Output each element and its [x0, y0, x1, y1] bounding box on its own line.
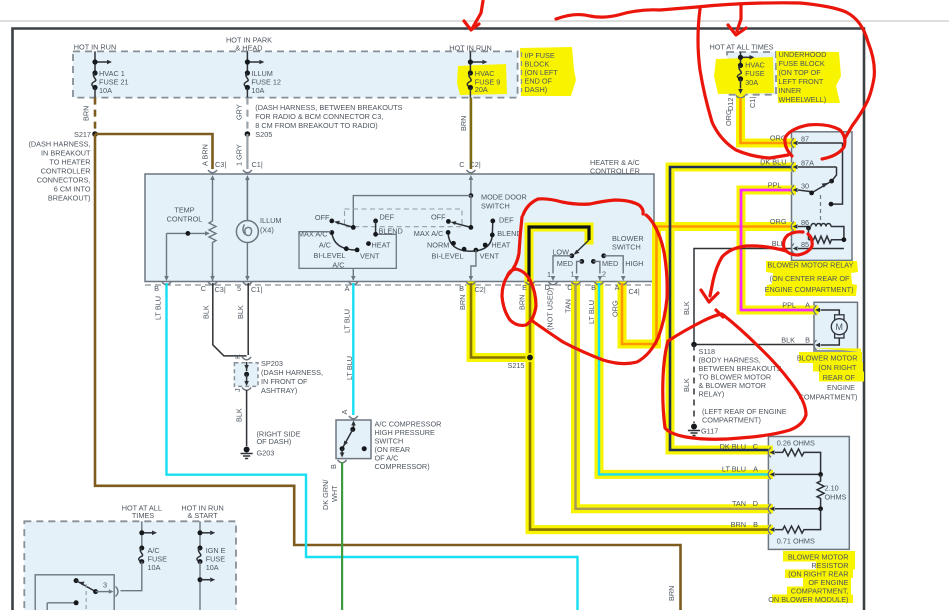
wire BLK pin 5 to SP203: [247, 283, 249, 355]
svg-text:B: B: [459, 284, 464, 293]
svg-text:S205: S205: [255, 130, 272, 139]
page separator line: [0, 20, 949, 22]
svg-text:WHT: WHT: [330, 485, 339, 502]
svg-text:LEFT FRONT: LEFT FRONT: [779, 77, 824, 86]
svg-text:BRN: BRN: [458, 295, 467, 310]
svg-text:C: C: [201, 284, 206, 293]
resistor 0.71 ohms: [775, 509, 821, 533]
relay coil: [811, 224, 831, 227]
underhood connector bracket: [736, 96, 745, 99]
svg-text:B: B: [805, 336, 810, 345]
wire BLK relay 85 down to S118: [694, 249, 792, 345]
highlight wire ORG relay 86 to blower switch A: [622, 227, 792, 345]
highlight wire PPL relay 30 to motor A: [741, 190, 814, 310]
svg-text:D12: D12: [726, 98, 735, 111]
relay pin brackets and arrows: [791, 138, 794, 254]
svg-text:MED: MED: [557, 259, 573, 268]
svg-text:A: A: [753, 465, 758, 474]
svg-text:VENT: VENT: [480, 252, 500, 261]
left mode output to pin A: [352, 268, 354, 273]
svg-text:LT BLU: LT BLU: [722, 465, 746, 474]
motor internal wiring: [821, 310, 840, 316]
svg-text:A: A: [345, 284, 350, 293]
svg-text:C1|: C1|: [251, 285, 262, 294]
svg-text:COMPRESSOR): COMPRESSOR): [375, 462, 430, 471]
svg-text:1 GRY: 1 GRY: [235, 144, 244, 166]
svg-text:BI-LEVEL: BI-LEVEL: [313, 251, 345, 260]
svg-text:S217: S217: [74, 130, 91, 139]
svg-text:C2|: C2|: [475, 285, 486, 294]
svg-text:BRN: BRN: [667, 586, 676, 601]
red circle around relay pin 85: [784, 232, 813, 255]
svg-text:ORG: ORG: [770, 217, 787, 226]
svg-text:C1|: C1|: [748, 97, 757, 108]
blower motor relay box: [792, 132, 853, 261]
highlight wire TAN to resistor D: [576, 286, 769, 509]
svg-text:WHEELWELL): WHEELWELL): [779, 95, 827, 104]
svg-text:5: 5: [237, 284, 241, 293]
wire ORG pin A to relay 86: [622, 227, 792, 345]
svg-text:ENGINE: ENGINE: [827, 383, 855, 392]
red arrow to S118 area: [710, 246, 786, 296]
svg-text:FUSE BLOCK: FUSE BLOCK: [779, 59, 825, 68]
svg-text:J: J: [233, 388, 242, 392]
svg-text:BLOWER MOTOR: BLOWER MOTOR: [797, 354, 858, 363]
svg-text:1: 1: [547, 270, 551, 279]
svg-text:10A: 10A: [206, 563, 219, 572]
svg-text:BLK: BLK: [682, 378, 691, 392]
svg-text:& START: & START: [188, 511, 219, 520]
pin C bracket + labels: [466, 170, 475, 173]
svg-text:BLEND: BLEND: [497, 229, 521, 238]
svg-text:B: B: [591, 283, 596, 292]
wire BLK dashed S118 to G117: [693, 345, 695, 424]
svg-text:C: C: [753, 442, 758, 451]
svg-text:85: 85: [801, 240, 809, 249]
svg-text:30A: 30A: [745, 78, 758, 87]
svg-text:BRN: BRN: [518, 295, 527, 310]
S217 harness note: [28, 140, 91, 203]
svg-text:BI-LEVEL: BI-LEVEL: [432, 252, 464, 261]
svg-text:COMPARTMENT): COMPARTMENT): [799, 393, 858, 402]
contact MED 1: [579, 259, 584, 264]
svg-text:FUSE: FUSE: [745, 69, 765, 78]
svg-text:(X4): (X4): [260, 226, 274, 235]
wire BLK pin C to SP203: [213, 283, 247, 356]
potentiometer TEMP CONTROL: [209, 221, 216, 281]
wire GRY S205 to controller pin 1: [246, 134, 248, 169]
svg-text:(DASH HARNESS,: (DASH HARNESS,: [28, 140, 90, 149]
svg-text:BRN: BRN: [82, 106, 91, 121]
right mode switch arc: [448, 221, 493, 251]
red squiggle over mode door switch: [523, 199, 643, 215]
I/P fuse block location text: [522, 51, 559, 94]
svg-text:C3|: C3|: [215, 285, 226, 294]
svg-text:B: B: [753, 520, 758, 529]
svg-text:ENGINE COMPARTMENT): ENGINE COMPARTMENT): [765, 285, 854, 294]
red loop around S118 text: [663, 314, 806, 439]
svg-text:86: 86: [801, 218, 809, 227]
svg-text:OFF: OFF: [315, 213, 330, 222]
LOW leg to pin D: [553, 256, 572, 274]
contact HIGH: [601, 253, 606, 258]
wire BRN S217 down-left long run: [95, 134, 681, 610]
svg-text:UNDERHOOD: UNDERHOOD: [779, 50, 827, 59]
bottom left fuse block box: [24, 521, 236, 610]
svg-text:BREAKOUT): BREAKOUT): [48, 194, 91, 203]
node S205: [245, 131, 251, 137]
svg-text:ON BLOWER MODULE): ON BLOWER MODULE): [768, 595, 848, 604]
highlight I/P fuse block text blob: [520, 47, 576, 96]
svg-text:A: A: [340, 410, 349, 415]
fuse ILLUM FUSE 12 10A: [244, 51, 281, 97]
ground G203: [241, 430, 301, 459]
blower motor resistor box: [768, 437, 849, 550]
highlight underhood fuse block text blob: [776, 51, 841, 103]
svg-text:NORM: NORM: [427, 241, 449, 250]
svg-text:10A: 10A: [251, 86, 264, 95]
svg-text:ASHTRAY): ASHTRAY): [261, 386, 297, 395]
svg-text:ORG: ORG: [611, 300, 620, 317]
controller bottom pin arrows: [164, 276, 625, 281]
svg-text:10A: 10A: [148, 563, 161, 572]
svg-text:CONTROLLER: CONTROLLER: [590, 167, 640, 176]
red arrow top center: [473, 1, 483, 27]
red stroke top toward loop: [556, 7, 697, 19]
svg-text:SP203: SP203: [261, 359, 283, 368]
svg-text:REAR OF: REAR OF: [823, 373, 856, 382]
svg-text:B: B: [154, 284, 159, 293]
node S215: [525, 353, 534, 362]
underhood fuse block box: [727, 52, 776, 95]
svg-text:BLK: BLK: [236, 305, 245, 319]
svg-text:BLK: BLK: [235, 408, 244, 422]
svg-text:M: M: [836, 322, 844, 332]
wire BRN fuse9 to controller pin C: [470, 98, 473, 169]
highlight blower motor text: [799, 348, 863, 381]
wire BRN dashed fuse21 to S217: [94, 98, 97, 134]
svg-text:E: E: [522, 283, 527, 292]
highlight wire ORG fuse to relay 87: [741, 96, 792, 143]
controller top pin arrows: [210, 175, 215, 180]
svg-text:LT BLU: LT BLU: [154, 296, 163, 320]
highlight wire DK BLU relay 87A to resistor C: [670, 167, 792, 450]
svg-text:K: K: [233, 354, 242, 359]
highlight blower motor relay text: [765, 261, 858, 296]
svg-text:A: A: [615, 283, 620, 292]
left mode switch arc: [332, 233, 357, 251]
svg-text:SWITCH: SWITCH: [481, 202, 510, 211]
svg-text:3: 3: [103, 581, 107, 590]
highlight underhood fuse area blob: [714, 57, 774, 94]
wire TAN pin C to resistor D: [576, 283, 769, 509]
wire ORG underhood fuse to relay 87: [741, 98, 792, 143]
svg-text:87A: 87A: [801, 159, 814, 168]
svg-text:TO HEATER: TO HEATER: [49, 158, 90, 167]
svg-text:CONNECTORS,: CONNECTORS,: [37, 176, 91, 185]
blower switch feed thick black wire: [529, 227, 589, 282]
svg-text:HOT AT ALL TIMES: HOT AT ALL TIMES: [709, 43, 773, 52]
red oval around relay pin 87: [785, 125, 845, 159]
left mode switch OFF blade: [329, 219, 334, 224]
svg-text:DK GRN/: DK GRN/: [321, 479, 330, 510]
svg-text:IN BREAKOUT: IN BREAKOUT: [41, 149, 91, 158]
wire GRY dashed fuse12 to S205: [246, 98, 248, 134]
svg-text:HEAT: HEAT: [372, 241, 391, 250]
resistor A row: [775, 473, 821, 475]
highlight wire LT BLU to resistor A: [599, 286, 768, 474]
bottom left inner switch box: [35, 575, 114, 610]
svg-text:HIGH: HIGH: [625, 259, 643, 268]
svg-text:0.71 OHMS: 0.71 OHMS: [777, 537, 815, 546]
svg-text:A: A: [805, 301, 810, 310]
red descender and oval around BRN E: [502, 217, 536, 325]
svg-text:BRN: BRN: [459, 116, 468, 131]
svg-text:G203: G203: [257, 449, 275, 458]
fuse A/C FUSE 10A: [121, 521, 168, 590]
motor M circle: [831, 319, 847, 335]
A/C compressor high pressure switch box: [336, 420, 371, 459]
I/P fuse block box: [73, 51, 518, 97]
wire LT BLU pin A to compressor switch: [352, 283, 354, 415]
svg-text:2.10: 2.10: [825, 484, 839, 493]
relay switch: [831, 143, 843, 204]
svg-text:PPL: PPL: [782, 301, 796, 310]
contact MED 2: [591, 259, 596, 264]
controller bottom pin brackets: [162, 282, 627, 285]
resistor location text: [768, 553, 848, 605]
svg-text:MODE DOOR: MODE DOOR: [481, 193, 527, 202]
highlight wire BRN B to S215: [471, 286, 530, 358]
svg-text:TAN: TAN: [564, 299, 573, 313]
svg-text:TEMP: TEMP: [174, 206, 194, 215]
svg-text:8 CM FROM BREAKOUT TO RADIO): 8 CM FROM BREAKOUT TO RADIO): [255, 121, 377, 130]
svg-text:COMPARTMENT): COMPARTMENT): [702, 416, 761, 425]
svg-text:(NOT USED): (NOT USED): [546, 288, 555, 330]
svg-text:C4|: C4|: [629, 287, 640, 296]
relay actuator dashed link: [820, 195, 822, 224]
wire LT BLU pin B2 to resistor A: [599, 283, 768, 474]
underhood fuse block location text: [779, 50, 827, 104]
node S118: [691, 342, 697, 348]
SP203 connector box: [234, 363, 258, 387]
svg-text:PPL: PPL: [768, 181, 782, 190]
left HEAT contact: [366, 241, 371, 246]
svg-text:(DASH HARNESS,: (DASH HARNESS,: [261, 368, 323, 377]
svg-text:ILLUM: ILLUM: [260, 216, 282, 225]
resistor 2.10 ohms vertical: [817, 474, 824, 508]
svg-text:DK BLU: DK BLU: [720, 442, 746, 451]
svg-text:1: 1: [570, 270, 574, 279]
svg-text:BRN: BRN: [731, 520, 746, 529]
fuse HVAC FUSE 30A: [737, 52, 764, 94]
fuse IGN E FUSE 10A: [197, 521, 226, 610]
contact LOW: [569, 253, 574, 258]
svg-text:MAX A/C: MAX A/C: [298, 230, 328, 239]
svg-text:TIMES: TIMES: [132, 511, 154, 520]
svg-text:C: C: [459, 160, 464, 169]
svg-text:(DASH HARNESS, BETWEEN BREAKOU: (DASH HARNESS, BETWEEN BREAKOUTS: [255, 103, 402, 112]
svg-text:(ON TOP OF: (ON TOP OF: [779, 68, 822, 77]
svg-text:OHMS: OHMS: [825, 493, 847, 502]
svg-text:10A: 10A: [99, 86, 112, 95]
fuse HVAC FUSE 9 20A: [467, 51, 500, 97]
svg-text:87: 87: [801, 135, 809, 144]
svg-text:HEAT: HEAT: [491, 241, 510, 250]
ganged dashed box: [345, 209, 463, 227]
right mode switch OFF blade: [446, 219, 451, 224]
left DEF/BLEND column: [373, 219, 378, 224]
svg-text:B: B: [329, 464, 338, 469]
svg-text:DEF: DEF: [499, 216, 514, 225]
motor location text: [797, 354, 858, 402]
wire BRN S217 to controller pin A: [95, 134, 213, 169]
A/C compressor switch internals: [349, 416, 358, 419]
mode switch feed junction: [469, 193, 474, 198]
ground G117: [688, 424, 718, 436]
svg-text:20A: 20A: [475, 85, 488, 94]
relay resistor: [808, 228, 810, 240]
blower switch blade: [577, 240, 589, 252]
svg-text:& HEAD: & HEAD: [235, 44, 262, 53]
highlight blower switch feed thick black wire: [529, 227, 589, 283]
fuse HVAC 1 FUSE 21 10A: [92, 51, 129, 97]
svg-text:C: C: [567, 283, 572, 292]
node S217: [92, 131, 98, 137]
red meander to right: [531, 215, 667, 364]
svg-text:HOT IN RUN: HOT IN RUN: [449, 44, 491, 53]
svg-text:(ON CENTER REAR OF: (ON CENTER REAR OF: [770, 274, 850, 283]
svg-text:DEF: DEF: [380, 213, 395, 222]
heater and A/C controller box: [145, 174, 654, 282]
svg-text:LT BLU: LT BLU: [343, 309, 352, 333]
resistor 0.26 ohms: [775, 449, 821, 475]
svg-text:BLK: BLK: [781, 336, 795, 345]
svg-text:TAN: TAN: [732, 499, 746, 508]
svg-text:A/C: A/C: [332, 261, 344, 270]
svg-text:S215: S215: [507, 361, 524, 370]
wire LT BLU pin B long run: [167, 283, 578, 610]
motor brushes: [835, 315, 844, 320]
right mode output to pin B: [471, 250, 476, 273]
svg-text:CONTROLLER: CONTROLLER: [41, 167, 91, 176]
pin A bracket + labels: [208, 170, 217, 173]
resistor D row: [775, 508, 821, 510]
svg-text:BLK: BLK: [202, 305, 211, 319]
highlight wire BRN E down through S215: [530, 286, 768, 530]
A/C function box: [299, 232, 396, 269]
controller bottom connector dashed line: [145, 284, 654, 286]
svg-text:OFF: OFF: [431, 213, 446, 222]
svg-text:A BRN: A BRN: [201, 144, 210, 166]
svg-text:C3|: C3|: [215, 160, 226, 169]
wire PPL relay 30 to motor A: [741, 190, 814, 310]
pin 1 bracket + labels: [243, 170, 252, 173]
svg-text:6 CM INTO: 6 CM INTO: [54, 185, 91, 194]
svg-text:2: 2: [602, 270, 606, 279]
svg-text:FOR RADIO & BCM CONNECTOR C3,: FOR RADIO & BCM CONNECTOR C3,: [255, 112, 383, 121]
svg-text:C1|: C1|: [252, 160, 263, 169]
svg-text:A/C: A/C: [319, 241, 331, 250]
svg-text:MED: MED: [602, 259, 618, 268]
svg-text:SWITCH: SWITCH: [612, 243, 641, 252]
svg-text:0.26 OHMS: 0.26 OHMS: [777, 439, 815, 448]
svg-text:ORG: ORG: [724, 109, 733, 126]
svg-text:INNER: INNER: [779, 86, 802, 95]
temp control wiper: [167, 232, 206, 234]
svg-text:RELAY): RELAY): [699, 390, 725, 399]
svg-text:GRY: GRY: [235, 104, 244, 120]
wire BRN pin B to S215: [471, 283, 530, 358]
svg-text:HOT IN RUN: HOT IN RUN: [74, 43, 116, 52]
wire DK GRN/WHT compressor to bottom: [341, 462, 343, 610]
SP203 connector internals: [242, 357, 251, 360]
highlight blower motor resistor text: [783, 551, 855, 562]
wire DK BLU relay 87A to resistor C: [670, 167, 792, 450]
svg-text:VENT: VENT: [360, 252, 380, 261]
svg-text:CONTROL: CONTROL: [167, 215, 203, 224]
svg-text:C2|: C2|: [470, 160, 481, 169]
svg-text:OF DASH): OF DASH): [257, 437, 292, 446]
red arrow above underhood block: [737, 5, 741, 31]
highlight HVAC FUSE 9 blob: [457, 64, 507, 95]
red loop around underhood block: [697, 3, 874, 138]
blower motor box: [814, 302, 858, 351]
svg-text:DASH): DASH): [525, 85, 548, 94]
wire BRN pin E through S215 to bottom: [530, 283, 768, 530]
svg-text:MAX A/C: MAX A/C: [414, 229, 444, 238]
svg-text:IN FRONT OF: IN FRONT OF: [261, 377, 308, 386]
wire BLK SP203 to G203: [246, 390, 248, 446]
svg-text:BLEND: BLEND: [379, 227, 403, 236]
bulb ILLUM (X4): [236, 180, 281, 274]
svg-text:30: 30: [801, 182, 809, 191]
wire BLK S118 to motor B: [694, 344, 814, 346]
S205 harness note: [255, 103, 402, 130]
svg-text:G117: G117: [701, 427, 718, 436]
S118 harness note: [699, 347, 787, 425]
svg-text:BLK: BLK: [682, 301, 691, 315]
svg-text:(ON RIGHT: (ON RIGHT: [818, 363, 857, 372]
svg-text:LT BLU: LT BLU: [587, 300, 596, 324]
inner box switch: [47, 578, 118, 610]
svg-text:BLOWER MOTOR RELAY: BLOWER MOTOR RELAY: [767, 261, 853, 270]
svg-text:D: D: [753, 499, 758, 508]
